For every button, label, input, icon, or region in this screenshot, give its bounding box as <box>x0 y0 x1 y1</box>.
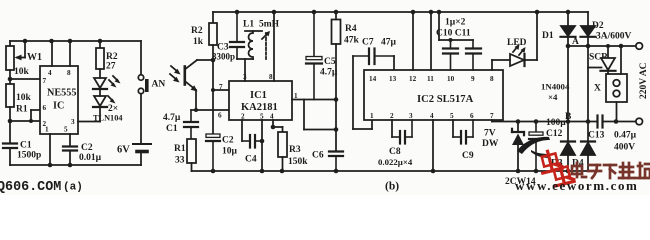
node: dot emitter junction <box>194 108 198 112</box>
capacitor C4 <box>242 135 262 165</box>
svg-text:7: 7 <box>43 77 47 85</box>
node: dots on R4 vertical <box>334 97 339 132</box>
node: junction dot pin7 branch <box>8 77 13 82</box>
svg-text:X: X <box>594 84 601 94</box>
capacitor C9 <box>453 120 474 161</box>
diode D1 1N4004 <box>542 12 576 122</box>
svg-text:C2: C2 <box>81 143 93 153</box>
thyristor SCR <box>588 46 616 74</box>
svg-text:8: 8 <box>490 75 494 83</box>
svg-text:4.7µ: 4.7µ <box>163 113 181 123</box>
svg-text:D2: D2 <box>592 21 604 31</box>
LED indicator on pin 8 <box>492 12 537 70</box>
svg-text:R2: R2 <box>191 26 203 36</box>
capacitor C10 1u <box>443 40 458 70</box>
node: dots on node A wire <box>566 44 624 49</box>
svg-text:IC2 SL517A: IC2 SL517A <box>417 94 474 105</box>
diode D3 1N4004 <box>551 122 575 172</box>
capacitor C6 <box>312 151 343 172</box>
caption (b) <box>385 181 399 193</box>
wire: pin 7 output / node B horizontal wire <box>492 120 636 122</box>
svg-text:DW: DW <box>482 139 499 149</box>
wire: LED chain to pin 3 <box>78 107 100 122</box>
svg-text:C5: C5 <box>324 57 336 67</box>
svg-text:9: 9 <box>471 75 475 83</box>
op-amp U1: NE555 timer IC box <box>40 66 78 134</box>
node B label <box>565 112 572 122</box>
svg-text:A: A <box>572 37 579 47</box>
node: junction dot pins 2/6 branch <box>8 119 13 124</box>
capacitor C12 100u electrolytic <box>529 118 566 171</box>
LED VD2 (TLN104) <box>93 89 123 123</box>
svg-text:×4: ×4 <box>548 92 558 102</box>
svg-text:6: 6 <box>218 112 222 120</box>
svg-text:NE555: NE555 <box>47 88 76 99</box>
pin numbers of IC2 bottom row <box>370 112 494 120</box>
wire: pin 6 wire of IC1 <box>191 109 229 111</box>
svg-text:220V AC: 220V AC <box>639 62 649 99</box>
pin numbers of NE555 <box>43 69 76 134</box>
wire: pin 5 stub to C2 <box>69 134 71 147</box>
transistor Q1: phototransistor receiver <box>185 60 213 110</box>
wire: pin 4 stub of IC1 <box>273 120 283 127</box>
svg-text:5: 5 <box>450 112 454 120</box>
svg-text:10: 10 <box>447 75 455 83</box>
wire: pin 2 wire of NE555 <box>10 120 40 122</box>
pushbutton AN <box>138 41 165 144</box>
node: dot R2 bottom / collector node <box>211 58 216 63</box>
pin numbers of IC2 top row <box>369 75 494 83</box>
svg-text:1: 1 <box>370 112 374 120</box>
svg-text:10k: 10k <box>16 93 32 103</box>
wire: left vertical from rail to W1 <box>9 41 11 46</box>
svg-text:C10 C11: C10 C11 <box>436 29 471 39</box>
diode D2 1N4004 <box>581 12 604 122</box>
svg-text:2: 2 <box>390 112 394 120</box>
svg-text:4: 4 <box>48 69 52 77</box>
svg-text:3: 3 <box>409 112 413 120</box>
wire: pin 3 stub of IC1 <box>244 59 246 81</box>
wire: pin 4 stub <box>51 41 53 66</box>
resistor R4 47k <box>332 12 360 152</box>
svg-text:33: 33 <box>175 156 185 166</box>
svg-text:47µ: 47µ <box>381 38 397 48</box>
svg-text:R1: R1 <box>16 105 28 115</box>
label 220V AC rotated <box>639 62 649 99</box>
inductor L1 5mH tuned coil <box>237 20 280 60</box>
svg-text:R3: R3 <box>289 145 301 155</box>
svg-text:R2: R2 <box>106 52 118 62</box>
svg-text:1: 1 <box>45 126 49 134</box>
svg-text:3300p: 3300p <box>212 52 235 62</box>
svg-text:11: 11 <box>427 75 434 83</box>
capacitor C2 0.01u <box>63 143 102 163</box>
svg-text:400V: 400V <box>614 143 635 153</box>
svg-text:14: 14 <box>369 75 377 83</box>
capacitor C7 47u coupling <box>353 38 397 65</box>
wire: circuit (b) top supply rail <box>213 11 588 13</box>
resistor R1 33 <box>174 139 196 171</box>
op-amp U2: IC1 KA2181 box <box>229 81 292 120</box>
wire: pin 2 stub of IC1 <box>241 120 243 141</box>
wire: C7 left end down to pin 1 of IC2 <box>353 56 372 129</box>
svg-text:C4: C4 <box>245 155 257 165</box>
capacitor C11 1u <box>436 18 481 71</box>
label 3A/600V <box>596 32 632 42</box>
wire: circuit (a) bottom rail <box>10 164 141 166</box>
svg-text:4: 4 <box>430 112 434 120</box>
node: dot C4/pin5 <box>260 139 265 144</box>
resistor R3 150k <box>278 127 308 171</box>
wire: C7 right end to pin 13 of IC2 <box>393 56 395 70</box>
svg-text:1µ×2: 1µ×2 <box>445 18 466 28</box>
wire: pin 1 wire of IC1 to R4 node <box>292 100 336 130</box>
svg-text:8: 8 <box>269 73 273 81</box>
svg-text:W1: W1 <box>27 52 42 63</box>
wire: IR light arrows into phototransistor <box>170 66 181 83</box>
node: junction dots on top rail of (b) <box>235 10 571 15</box>
wire: pot to R1 <box>9 70 11 84</box>
wire: pin 7 wire of NE555 <box>10 78 40 80</box>
watermark: red bug 2 <box>550 162 574 186</box>
svg-text:1N4004: 1N4004 <box>541 82 570 92</box>
svg-text:0.47µ: 0.47µ <box>614 131 637 141</box>
svg-text:L1: L1 <box>243 20 254 30</box>
svg-text:AN: AN <box>152 80 166 90</box>
capacitor C1 4.7u <box>163 110 198 139</box>
potentiometer W1 10k <box>6 41 42 77</box>
svg-text:D1: D1 <box>542 31 554 41</box>
wire: pin 6 jog to pin 2 wire <box>31 110 40 121</box>
watermark: black swoosh of bug logo <box>517 137 550 158</box>
svg-text:C1: C1 <box>166 124 178 134</box>
capacitor C1 1500p <box>3 141 41 161</box>
node A label <box>572 37 579 47</box>
svg-text:10k: 10k <box>14 67 30 77</box>
svg-text:0.022µ×4: 0.022µ×4 <box>378 157 413 167</box>
svg-text:7V: 7V <box>484 129 496 139</box>
svg-text:www.eeworm.com: www.eeworm.com <box>515 178 638 193</box>
svg-text:R1: R1 <box>174 144 186 154</box>
svg-text:C6: C6 <box>312 151 324 161</box>
svg-text:C1: C1 <box>20 141 32 151</box>
svg-text:100µ: 100µ <box>546 118 566 128</box>
svg-text:1500p: 1500p <box>17 151 41 161</box>
wire: pin 5 stub of IC1 to ground <box>261 120 263 171</box>
svg-text:3A/600V: 3A/600V <box>596 32 632 42</box>
svg-text:C8: C8 <box>389 147 401 157</box>
wire: pin 8 stub <box>69 41 71 66</box>
wire: R1 down to C1 <box>9 107 11 144</box>
wire: node A horizontal wire <box>568 45 636 47</box>
node: dot C10 tap <box>449 38 453 42</box>
resistor R2 1k <box>191 12 217 60</box>
svg-text:IC1: IC1 <box>250 90 267 101</box>
wire: circuit (a) top supply rail <box>10 40 141 42</box>
svg-text:47k: 47k <box>344 36 360 46</box>
wire: pin 11 stub to rail <box>430 12 432 70</box>
svg-text:C13: C13 <box>588 131 605 141</box>
pin numbers of IC1 <box>218 73 298 121</box>
svg-text:C9: C9 <box>462 151 474 161</box>
svg-text:27: 27 <box>106 62 116 72</box>
resistor R2 27 <box>96 41 118 72</box>
wire: C2 to bottom rail <box>69 151 71 166</box>
terminal: AC terminal bottom <box>636 118 643 125</box>
svg-text:5: 5 <box>64 126 68 134</box>
svg-text:(b): (b) <box>385 181 399 193</box>
caption (a) with site watermark <box>0 180 83 195</box>
svg-text:C7: C7 <box>362 38 374 48</box>
svg-text:6: 6 <box>43 104 47 112</box>
socket X <box>594 46 627 122</box>
node: dot pin7 tap <box>211 88 215 92</box>
wire: pin 4 stub of IC2 to ground <box>432 120 434 171</box>
battery 6V <box>117 144 151 165</box>
svg-text:7: 7 <box>490 112 494 120</box>
svg-text:150k: 150k <box>288 157 308 167</box>
node: dots on bottom rail <box>211 169 571 174</box>
svg-text:2×: 2× <box>108 104 118 114</box>
node: dot pin4 <box>271 125 276 130</box>
node: dots on node B wire <box>516 119 619 124</box>
svg-text:R4: R4 <box>345 24 357 34</box>
watermark: red site name glyphs <box>572 163 650 178</box>
LED VD1 (TLN104) <box>93 69 121 89</box>
watermark: www.eeworm.com <box>515 178 638 193</box>
svg-text:10µ: 10µ <box>222 147 238 157</box>
wire: pin 2 stub of IC2 <box>391 120 393 137</box>
svg-text:3: 3 <box>71 118 75 126</box>
wire: pin 8 stub of IC1 to rail <box>273 12 275 81</box>
wire: pin 1 stub to ground rail <box>49 134 51 165</box>
terminal: AC terminal top <box>636 43 643 50</box>
svg-text:C2: C2 <box>222 136 234 146</box>
wire: pin 12 stub to rail <box>412 12 414 70</box>
svg-text:Q606.COM: Q606.COM <box>0 180 61 195</box>
zener diode DW 7V 2CW14 <box>482 122 536 188</box>
node: junction dots on top rail of (a) <box>23 39 103 44</box>
capacitor C13 0.47u 400V <box>588 116 637 153</box>
node: dot at pin6 jog <box>29 119 33 123</box>
svg-text:13: 13 <box>389 75 397 83</box>
resistor R1 10k <box>6 84 32 115</box>
wire: pin 5 stub of IC2 <box>452 120 454 137</box>
op-amp U3: IC2 SL517A box <box>364 70 503 120</box>
watermark: red bug 1 <box>538 149 562 173</box>
svg-text:0.01µ: 0.01µ <box>79 153 102 163</box>
label 1N4004 x4 <box>541 82 570 103</box>
svg-text:12: 12 <box>409 75 417 83</box>
svg-text:8: 8 <box>67 69 71 77</box>
capacitor C2 10u electrolytic <box>206 134 238 171</box>
capacitor C8 0.022u <box>378 120 413 167</box>
wire: vertical node R2/C2 with pin7 tap <box>212 60 214 134</box>
node: dots on bottom rail <box>48 163 73 168</box>
wire: pin 7 wire of IC1 <box>213 89 229 91</box>
svg-text:1k: 1k <box>193 37 204 47</box>
svg-text:6: 6 <box>470 112 474 120</box>
svg-text:7: 7 <box>219 83 223 91</box>
diode D4 1N4004 <box>572 122 595 172</box>
capacitor C3 3300p <box>212 12 244 62</box>
svg-text:IC: IC <box>53 101 64 112</box>
svg-text:(a): (a) <box>63 182 83 194</box>
svg-text:KA2181: KA2181 <box>241 102 278 113</box>
svg-text:6V: 6V <box>117 145 130 156</box>
svg-text:5mH: 5mH <box>259 20 280 30</box>
wire: circuit (b) bottom ground rail <box>192 170 589 172</box>
capacitor C5 4.7u electrolytic <box>306 12 338 100</box>
wire: C1 to bottom rail <box>9 148 11 165</box>
wire: C10/C11 feeder from rail <box>439 12 473 40</box>
